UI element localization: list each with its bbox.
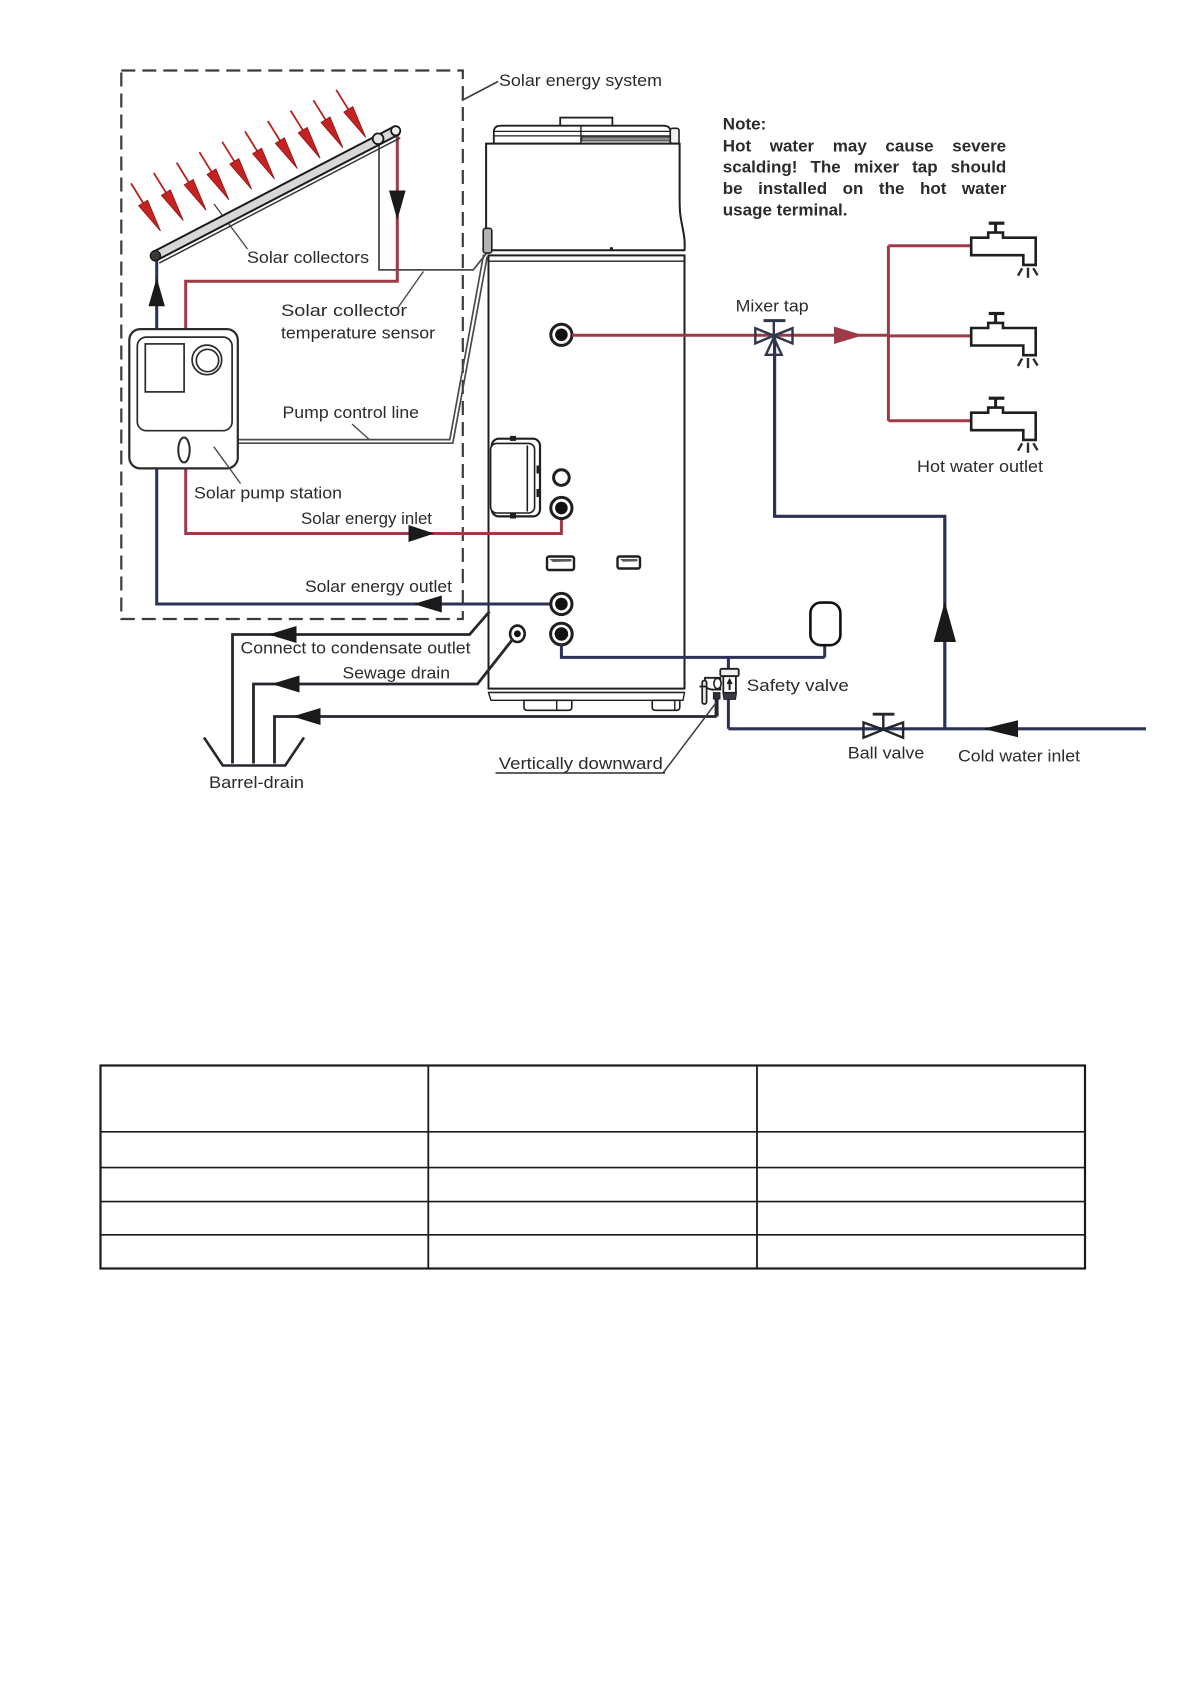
svg-text:Mixer tap: Mixer tap (736, 297, 809, 316)
leader: solar pump station label (214, 447, 241, 484)
expansion vessel (810, 603, 840, 646)
svg-text:Solar energy inlet: Solar energy inlet (301, 509, 432, 528)
port: hot water outlet (551, 324, 572, 345)
pipe: hot riser to taps (887, 246, 890, 421)
svg-text:be installed on the hot water: be installed on the hot water (723, 179, 1007, 198)
tap 1 (hot water outlet, top) (971, 223, 1037, 278)
pipe: tank to safety valve / expansion vessel (blue) (561, 644, 824, 657)
svg-text:Connect to condensate outlet: Connect to condensate outlet (241, 639, 471, 658)
svg-text:Barrel-drain: Barrel-drain (209, 773, 304, 792)
mixer tap symbol (755, 321, 792, 355)
water heater: top lid right end box (670, 128, 679, 143)
flow arrow up (cold riser) (934, 602, 956, 643)
svg-text:Vertically downward: Vertically downward (499, 754, 663, 773)
svg-text:Ball valve: Ball valve (848, 744, 925, 763)
svg-text:Solar collectors: Solar collectors (247, 248, 369, 267)
barrel-drain vessel (204, 738, 304, 766)
pipe: solar return (blue) tank outlet to collector (157, 257, 552, 604)
pipe: cold water main (blue) (728, 727, 1146, 730)
svg-text:Note:: Note: (723, 115, 766, 134)
svg-text:Solar collector: Solar collector (281, 301, 407, 320)
solar pump station box (129, 329, 238, 468)
pipe: hot water out to mixer tap (572, 334, 888, 337)
pipe overlay: solar energy outlet from tank (487, 603, 556, 606)
vent slot right (618, 557, 641, 569)
pipe: safety valve drop (blue) (727, 657, 730, 670)
tank foot right (652, 700, 680, 710)
control panel on tank (492, 439, 540, 517)
svg-text:usage terminal.: usage terminal. (723, 201, 848, 220)
tap 3 (hot water outlet, bottom) (971, 398, 1037, 453)
sensor tab on upper unit left edge (483, 228, 492, 253)
pipe: expansion vessel stub (823, 644, 826, 657)
water heater: upper unit body (486, 144, 685, 251)
pipe: cold riser to mixer (775, 337, 945, 729)
pipe: top tap branch (888, 244, 972, 247)
port: small upper (heat pump) (554, 470, 570, 486)
svg-text:Solar energy outlet: Solar energy outlet (305, 577, 452, 596)
flow arrow right (red, after mixer) (834, 327, 863, 345)
tank foot left (524, 700, 572, 710)
svg-text:Hot water outlet: Hot water outlet (917, 457, 1043, 476)
collector left end cap (150, 251, 160, 261)
leader: vertically downward (663, 703, 716, 774)
svg-text:Pump control line: Pump control line (283, 403, 420, 422)
sewage line: port to barrel (254, 640, 513, 764)
tank base skirt (489, 693, 685, 701)
ball valve (864, 714, 904, 738)
dot on upper unit bottom (610, 247, 613, 250)
tank bottom band (489, 692, 685, 694)
flow arrow left (sewage) (272, 676, 300, 693)
underline: vertically downward (496, 772, 666, 774)
pipe: solar hot (red) collector to pump station to tank inlet (186, 132, 562, 534)
svg-text:scalding! The mixer tap should: scalding! The mixer tap should (723, 158, 1007, 177)
pipe: middle tap branch (888, 334, 972, 337)
safety valve (700, 669, 739, 717)
sun rays (10 red arrows) (131, 90, 348, 203)
svg-text:Solar energy system: Solar energy system (499, 71, 662, 90)
pipe: bottom tap branch (888, 419, 972, 422)
wire: pump control line (double) (238, 255, 483, 440)
leader: temperature sensor label (397, 272, 423, 310)
svg-text:Cold water inlet: Cold water inlet (958, 747, 1080, 766)
collector right end cap (391, 126, 400, 135)
solar collector bar (159, 138, 400, 263)
flow arrow left (condensate) (269, 626, 297, 643)
tank body (489, 255, 685, 688)
port: cold water / safety valve (551, 623, 573, 645)
condensate line: tank to barrel (233, 612, 490, 764)
wire: solar collector temperature sensor (379, 142, 486, 270)
flow arrow left (solar energy outlet) (414, 596, 442, 613)
tap 2 (hot water outlet, middle) (971, 314, 1037, 369)
dashed boundary: solar energy system (121, 71, 463, 620)
flow arrow up (blue riser) (149, 278, 165, 306)
table (101, 1066, 1086, 1269)
collector sensor pocket circle (373, 133, 384, 144)
tank top rim line (489, 260, 685, 262)
leader: solar energy system label (462, 82, 498, 101)
svg-text:Hot water may cause severe: Hot water may cause severe (723, 137, 1006, 156)
drain line: safety valve to barrel (vertically downward) (275, 717, 717, 764)
port: solar energy outlet (551, 593, 572, 614)
port: solar energy inlet (551, 497, 572, 518)
water heater: top lid stack (494, 126, 671, 144)
svg-text:Safety valve: Safety valve (747, 676, 849, 695)
vent slot left (547, 557, 574, 571)
svg-text:Solar pump station: Solar pump station (194, 484, 342, 503)
svg-text:Sewage drain: Sewage drain (343, 664, 451, 683)
note text (723, 115, 1007, 220)
svg-text:temperature sensor: temperature sensor (281, 324, 435, 343)
water heater: top unit lid handle (560, 118, 612, 126)
port: sewage drain (510, 626, 525, 642)
leader: solar collectors label (214, 204, 248, 249)
leader: pump control line label (352, 424, 369, 440)
flow arrow left (cold water inlet) (983, 720, 1018, 737)
pipe overlay: solar energy inlet into tank (487, 516, 561, 534)
flow arrow down (red drop pipe) (389, 191, 406, 221)
flow arrow right (solar energy inlet) (409, 525, 435, 542)
flow arrow left (drain line) (293, 708, 321, 725)
